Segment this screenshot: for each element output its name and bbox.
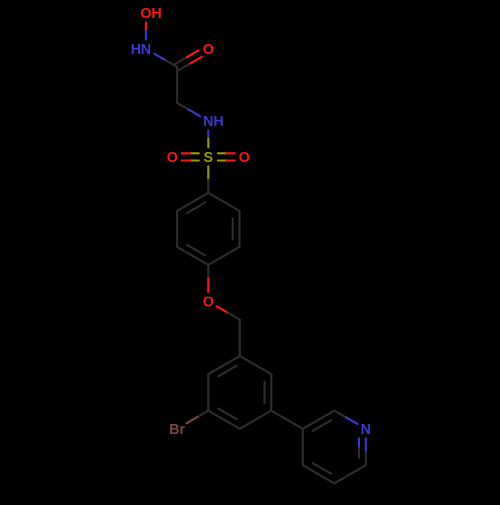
bond CH2-NH: [177, 103, 189, 110]
ring2 edge double: [270, 374, 272, 410]
svg-text:O: O: [239, 150, 250, 166]
ring1 edge: [208, 193, 239, 211]
svg-text:Br: Br: [169, 422, 185, 438]
svg-text:H: H: [131, 42, 141, 58]
bond NH-S: [207, 130, 209, 139]
ring2 edge: [240, 411, 271, 429]
ring2 edge: [207, 374, 209, 410]
pyridine edge double: [303, 411, 335, 429]
ring1 edge double: [238, 211, 240, 247]
bond C-CH2: [176, 67, 178, 103]
pyridine edge: [334, 465, 366, 483]
svg-text:N: N: [361, 422, 371, 438]
svg-text:H: H: [151, 6, 161, 22]
pyridine edge C-N: [334, 411, 346, 418]
double bond S=O right: [218, 159, 227, 161]
ring1 edge double: [177, 193, 208, 211]
ring2 edge double: [208, 356, 240, 374]
ring2 edge double: [208, 411, 240, 429]
svg-text:O: O: [140, 6, 151, 22]
double bond S=O left: [190, 152, 199, 154]
svg-text:N: N: [203, 114, 213, 130]
pyridine edge double: [303, 465, 335, 483]
biaryl bond: [271, 411, 303, 429]
ring1 edge double: [177, 247, 208, 265]
svg-text:O: O: [203, 42, 214, 58]
svg-text:S: S: [204, 150, 214, 166]
svg-text:N: N: [141, 42, 151, 58]
svg-text:O: O: [167, 150, 178, 166]
svg-text:O: O: [203, 295, 214, 311]
bond C-Br: [198, 411, 209, 417]
double bond C=O: [179, 63, 191, 70]
pyridine edge N=C double: [365, 438, 367, 452]
bond N-C carbonyl: [154, 54, 166, 61]
ring1 edge: [208, 247, 239, 265]
bond O-CH2: [217, 306, 229, 313]
svg-text:H: H: [213, 114, 223, 130]
pyridine edge: [302, 429, 304, 465]
ring2 edge: [240, 356, 271, 374]
bond O-N (hydroxylamine): [145, 22, 147, 31]
bond CH2-ring2: [239, 320, 241, 356]
ring1 edge: [176, 211, 178, 247]
bond ring1-O ether: [207, 265, 209, 279]
bond S-ring1: [207, 166, 209, 179]
